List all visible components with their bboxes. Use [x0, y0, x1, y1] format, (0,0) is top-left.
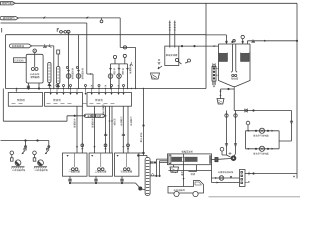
svg-text:氧化空气加热器: 氧化空气加热器: [253, 134, 269, 137]
svg-text:预洗塔: 预洗塔: [17, 98, 25, 102]
svg-text:去事故浆液箱: 去事故浆液箱: [87, 115, 101, 118]
svg-text:原烟气进口: 原烟气进口: [2, 1, 15, 5]
svg-text:滤液: 滤液: [191, 173, 196, 176]
svg-text:板框压滤机: 板框压滤机: [182, 151, 194, 154]
svg-text:二级氧化箱: 二级氧化箱: [95, 171, 107, 174]
svg-text:石灰石浆液: 石灰石浆液: [12, 44, 25, 48]
svg-text:石膏运输车: 石膏运输车: [174, 189, 186, 192]
svg-text:石灰石浆: 石灰石浆: [30, 73, 40, 76]
svg-text:石膏浆液箱: 石膏浆液箱: [121, 171, 133, 174]
svg-text:1#浆液循环泵: 1#浆液循环泵: [12, 169, 26, 172]
svg-text:氧化空气加热器: 氧化空气加热器: [253, 152, 269, 155]
svg-text:浆液池: 浆液池: [53, 98, 61, 102]
svg-text:锅炉原烟气: 锅炉原烟气: [3, 16, 16, 20]
svg-text:石膏浆液排出泵: 石膏浆液排出泵: [218, 171, 234, 174]
svg-text:事故浆液箱: 事故浆液箱: [166, 54, 178, 57]
svg-text:石灰石粉: 石灰石粉: [14, 59, 24, 62]
svg-text:吸收塔: 吸收塔: [231, 78, 239, 81]
svg-text:浆液池: 浆液池: [95, 98, 103, 102]
svg-text:2#浆液循环泵: 2#浆液循环泵: [35, 169, 49, 172]
svg-text:液制备箱: 液制备箱: [30, 76, 40, 79]
